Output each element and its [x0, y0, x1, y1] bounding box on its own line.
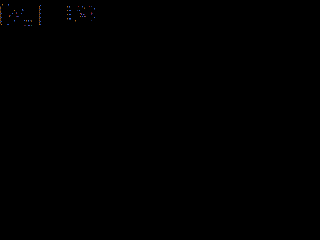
token red/orange (9,15-16)	[9, 15, 11, 17]
token blue (21,13)	[21, 13, 22, 14]
middle strip blue companions x=40	[40, 5, 41, 25]
right text row y=16	[80, 16, 86, 17]
right text row y=17-18	[67, 17, 95, 20]
token blue (12,13)	[12, 13, 13, 14]
token blue (22,9) with smear	[22, 9, 24, 11]
left margin strip column x=0 (alternating orange/navy/brown)	[0, 6, 1, 24]
token orange (14,10)	[14, 10, 15, 11]
right edge red strip (91,12-14)	[91, 12, 93, 15]
token blue pair (7-8,24)	[7, 24, 9, 25]
cluster row y=20-21 (x 24-31)	[24, 20, 32, 22]
middle strip column x=39 (alternating)	[39, 6, 40, 25]
right text row y=10	[67, 10, 80, 11]
cluster row y=25 (x 24-31)	[24, 25, 32, 26]
token blue (94,8)	[94, 8, 95, 10]
right text row y=13-14	[67, 13, 85, 15]
token orange (2,4)	[2, 4, 3, 6]
token blue (8,4)	[8, 4, 9, 6]
background	[0, 0, 100, 31]
token red (16,13) with dim blue above	[16, 12, 17, 14]
token purple/blue cluster (16-18,16)	[16, 16, 19, 17]
right text row y=20	[75, 20, 92, 22]
token blue (14,20)	[14, 20, 15, 22]
left strip bottom orange dot	[1, 24, 2, 25]
left strip blue companions x=1	[1, 13, 2, 22]
right text row y=6	[67, 6, 92, 9]
